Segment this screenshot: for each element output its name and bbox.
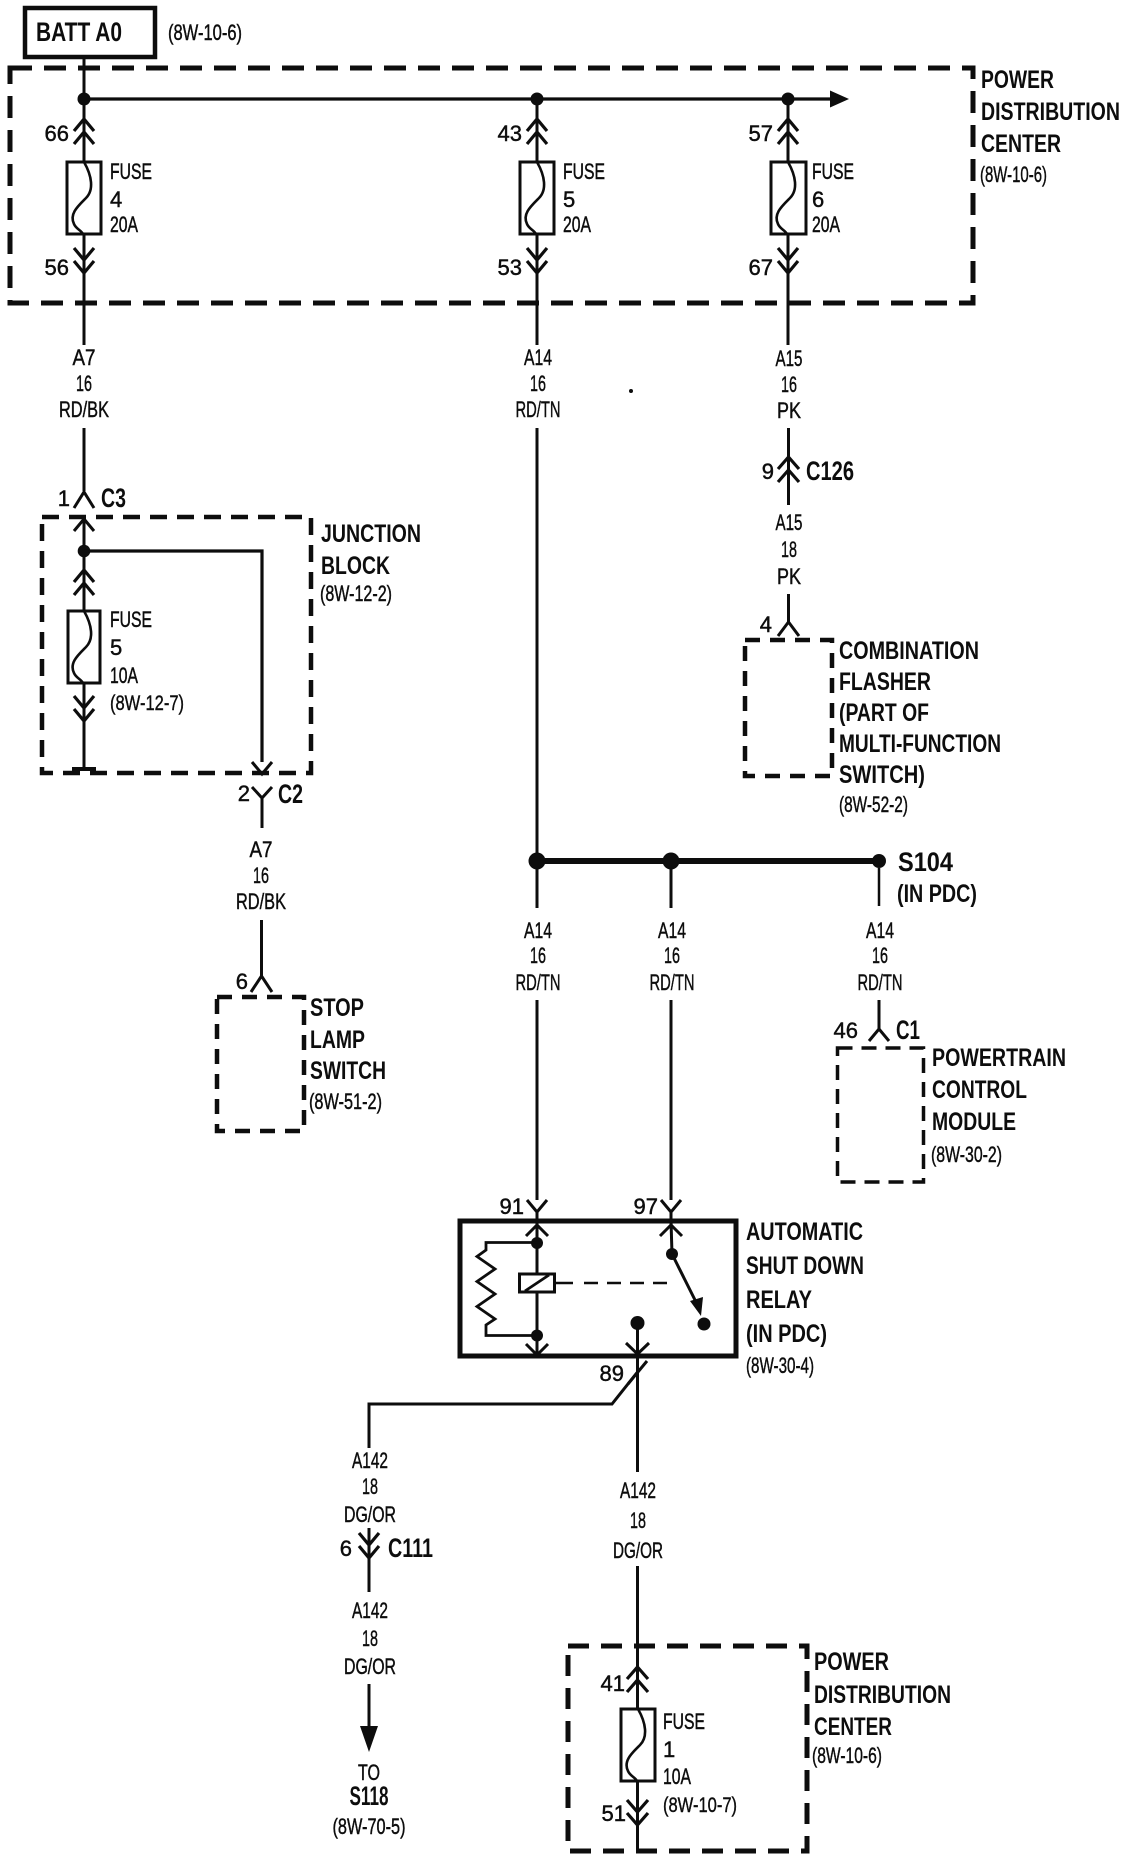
svg-text:(8W-70-5): (8W-70-5) bbox=[333, 1814, 406, 1839]
svg-text:SWITCH): SWITCH) bbox=[839, 761, 925, 789]
label POWERTRAIN CONTROL MODULE (8W-30-2) bbox=[931, 1044, 1066, 1167]
svg-text:STOP: STOP bbox=[310, 994, 364, 1022]
node relay pin 91 bbox=[531, 1237, 543, 1249]
connector C3 lower arrow bbox=[74, 519, 94, 551]
svg-text:FUSE: FUSE bbox=[563, 159, 605, 184]
svg-text:A14: A14 bbox=[524, 345, 552, 370]
connector C2 upper arrow bbox=[252, 762, 272, 774]
label wire A7 16 RD/BK (upper) bbox=[59, 345, 109, 422]
svg-text:A15: A15 bbox=[776, 510, 803, 535]
svg-text:(8W-10-7): (8W-10-7) bbox=[663, 1794, 737, 1817]
svg-text:FLASHER: FLASHER bbox=[839, 668, 931, 696]
svg-text:46: 46 bbox=[834, 1018, 858, 1043]
connector pin 6 fork bbox=[251, 976, 272, 992]
wire jb fuse to terminal bbox=[83, 683, 86, 768]
label POWER DISTRIBUTION CENTER (8W-10-6) lower bbox=[812, 1648, 951, 1768]
arrow to S118 bbox=[360, 1726, 378, 1752]
wire bus to fuse 6 bbox=[787, 99, 790, 162]
wire fuse 1 output bbox=[636, 1781, 639, 1851]
label wire A142 18 DG/OR (left upper) bbox=[344, 1448, 396, 1527]
svg-text:DISTRIBUTION: DISTRIBUTION bbox=[981, 98, 1120, 126]
svg-text:A14: A14 bbox=[658, 918, 686, 943]
svg-text:CONTROL: CONTROL bbox=[932, 1076, 1027, 1104]
wire bus to fuse 4 bbox=[83, 99, 86, 162]
svg-text:SWITCH: SWITCH bbox=[310, 1057, 386, 1085]
svg-text:RD/TN: RD/TN bbox=[858, 970, 903, 995]
svg-text:RD/BK: RD/BK bbox=[236, 889, 286, 914]
node relay coil return bbox=[531, 1330, 543, 1342]
svg-text:RD/TN: RD/TN bbox=[650, 970, 695, 995]
svg-text:A7: A7 bbox=[73, 345, 96, 370]
wire A7 to stop lamp switch bbox=[260, 920, 263, 976]
svg-text:(8W-12-2): (8W-12-2) bbox=[320, 581, 392, 606]
relay automatic shut down enclosure bbox=[460, 1221, 736, 1356]
svg-text:5: 5 bbox=[563, 187, 575, 212]
fuse 4 20A bbox=[67, 162, 101, 234]
label wire A14 16 RD/TN (fuse 5 output) bbox=[516, 345, 561, 422]
node splice S104 right bbox=[872, 854, 886, 868]
svg-text:9: 9 bbox=[762, 459, 774, 484]
splice S104 bus bbox=[537, 858, 879, 864]
label FUSE 4 20A bbox=[110, 159, 152, 237]
svg-text:(8W-52-2): (8W-52-2) bbox=[839, 792, 908, 817]
svg-text:6: 6 bbox=[236, 969, 248, 994]
svg-text:(8W-30-4): (8W-30-4) bbox=[746, 1353, 814, 1378]
svg-text:18: 18 bbox=[362, 1474, 378, 1499]
pin 97 entry chevron inside relay bbox=[660, 1225, 682, 1236]
node junction bus/fuse6 bbox=[782, 93, 795, 106]
label COMBINATION FLASHER (PART OF MULTI-FUNCTION SWITCH) (8W-52-2) bbox=[839, 637, 1001, 817]
wire bus A0 horizontal bbox=[84, 97, 831, 100]
wire bus to fuse 5 bbox=[536, 99, 539, 162]
svg-text:POWER: POWER bbox=[814, 1648, 889, 1676]
label FUSE 1 10A (8W-10-7) bbox=[663, 1709, 737, 1817]
node splice in junction block bbox=[78, 545, 91, 558]
pin 53 chevron bbox=[527, 248, 547, 273]
pin 67 chevron bbox=[778, 248, 798, 273]
svg-text:RD/TN: RD/TN bbox=[516, 397, 561, 422]
power distribution center 2 dashed enclosure bbox=[568, 1646, 807, 1851]
label wire A14 16 RD/TN (to relay pin 91) bbox=[516, 918, 561, 995]
svg-text:18: 18 bbox=[630, 1508, 646, 1533]
fuse 5 10A junction block bbox=[68, 611, 100, 683]
label TO S118 (8W-70-5) bbox=[333, 1760, 406, 1839]
svg-text:18: 18 bbox=[362, 1626, 378, 1651]
junction block dashed enclosure bbox=[42, 517, 311, 773]
svg-text:PK: PK bbox=[777, 398, 801, 423]
svg-text:CENTER: CENTER bbox=[981, 130, 1061, 158]
svg-text:20A: 20A bbox=[110, 212, 138, 237]
pin 66 chevron bbox=[74, 119, 94, 144]
jb fuse output chevron bbox=[74, 696, 94, 721]
label wire A14 16 RD/TN (to relay pin 97) bbox=[650, 918, 695, 995]
wire splice to fuse 5 jb bbox=[83, 551, 86, 611]
svg-text:57: 57 bbox=[749, 121, 773, 146]
svg-text:1: 1 bbox=[58, 486, 70, 511]
pin 57 chevron bbox=[778, 119, 798, 144]
svg-text:LAMP: LAMP bbox=[310, 1026, 365, 1054]
svg-text:16: 16 bbox=[530, 943, 546, 968]
wire A15 to flasher bbox=[787, 594, 790, 622]
wire relay coil feed bbox=[536, 1221, 539, 1274]
svg-text:COMBINATION: COMBINATION bbox=[839, 637, 979, 665]
svg-text:DISTRIBUTION: DISTRIBUTION bbox=[814, 1681, 951, 1709]
node relay common output bbox=[631, 1316, 645, 1330]
svg-text:(PART OF: (PART OF bbox=[839, 699, 929, 727]
connector fork pin 97 bbox=[661, 1200, 681, 1223]
svg-text:56: 56 bbox=[45, 255, 69, 280]
svg-text:51: 51 bbox=[602, 1801, 626, 1826]
label wire A15 16 PK bbox=[776, 346, 803, 423]
svg-text:FUSE: FUSE bbox=[110, 159, 152, 184]
wire branch to C111 bbox=[369, 1372, 638, 1448]
svg-text:BATT A0: BATT A0 bbox=[36, 17, 122, 47]
connector pin 4 fork bbox=[778, 622, 799, 636]
bus arrow bbox=[830, 91, 849, 108]
svg-text:RELAY: RELAY bbox=[746, 1286, 812, 1314]
label JUNCTION BLOCK (8W-12-2) bbox=[320, 520, 421, 606]
svg-text:A142: A142 bbox=[620, 1478, 656, 1503]
svg-text:MULTI-FUNCTION: MULTI-FUNCTION bbox=[839, 730, 1001, 758]
connector C1 fork bbox=[869, 1029, 889, 1041]
node BATT A0 feed box bbox=[25, 8, 155, 57]
svg-text:97: 97 bbox=[634, 1194, 658, 1219]
svg-text:(8W-10-6): (8W-10-6) bbox=[168, 20, 242, 45]
jb fuse feed chevron bbox=[74, 570, 94, 595]
svg-text:DG/OR: DG/OR bbox=[344, 1654, 396, 1679]
svg-text:91: 91 bbox=[500, 1194, 524, 1219]
wire A7 to connector C3 bbox=[83, 428, 86, 491]
node junction bus/fuse4 bbox=[78, 93, 91, 106]
label S104 (IN PDC) bbox=[897, 847, 977, 908]
node splice S104 middle bbox=[663, 853, 680, 870]
svg-text:16: 16 bbox=[781, 372, 797, 397]
svg-text:PK: PK bbox=[777, 564, 801, 589]
svg-text:66: 66 bbox=[45, 121, 69, 146]
resistor relay suppression bbox=[477, 1243, 537, 1336]
svg-text:2: 2 bbox=[238, 781, 250, 806]
label wire A142 18 DG/OR (left lower) bbox=[344, 1598, 396, 1679]
label FUSE 5 10A (8W-12-7) bbox=[110, 607, 184, 715]
connector C2 lower fork bbox=[252, 787, 272, 828]
combination flasher dashed enclosure bbox=[745, 640, 832, 776]
relay coil K1 bbox=[520, 1274, 555, 1292]
svg-text:RD/BK: RD/BK bbox=[59, 397, 109, 422]
svg-text:RD/TN: RD/TN bbox=[516, 970, 561, 995]
wire stub below S104 left bbox=[536, 868, 539, 908]
svg-text:A142: A142 bbox=[352, 1448, 388, 1473]
svg-text:C111: C111 bbox=[388, 1533, 433, 1563]
wire relay pin 97 to contact bbox=[671, 1221, 672, 1254]
svg-text:(IN PDC): (IN PDC) bbox=[746, 1320, 827, 1348]
wire A14 to PCM pin 46 bbox=[878, 1000, 881, 1029]
fuse 5 20A bbox=[520, 162, 554, 234]
fuse 6 20A bbox=[771, 162, 806, 234]
wire through C111 bbox=[368, 1528, 371, 1592]
label FUSE 6 20A bbox=[812, 159, 854, 237]
svg-text:POWERTRAIN: POWERTRAIN bbox=[932, 1044, 1066, 1072]
svg-text:(IN PDC): (IN PDC) bbox=[897, 880, 977, 908]
svg-text:6: 6 bbox=[340, 1536, 352, 1561]
svg-text:16: 16 bbox=[530, 371, 546, 396]
wire A14 down to splice S104 bbox=[536, 428, 539, 858]
power distribution center dashed enclosure bbox=[10, 68, 973, 303]
node splice S104 left bbox=[529, 853, 546, 870]
svg-text:(8W-10-6): (8W-10-6) bbox=[812, 1743, 882, 1768]
node relay contact 97 bbox=[666, 1248, 678, 1260]
svg-text:A7: A7 bbox=[250, 837, 273, 862]
svg-text:(8W-10-6): (8W-10-6) bbox=[980, 162, 1047, 187]
wire armature dashed link bbox=[584, 1282, 668, 1285]
wire armature link stub bbox=[555, 1282, 574, 1285]
fuse 1 10A bbox=[621, 1709, 655, 1781]
svg-text:4: 4 bbox=[760, 612, 772, 637]
svg-text:20A: 20A bbox=[563, 212, 591, 237]
svg-text:S104: S104 bbox=[898, 847, 953, 877]
svg-text:1: 1 bbox=[663, 1737, 675, 1762]
wire to S118 bbox=[368, 1684, 371, 1736]
svg-text:DG/OR: DG/OR bbox=[613, 1538, 663, 1563]
svg-text:JUNCTION: JUNCTION bbox=[321, 520, 421, 548]
svg-text:A14: A14 bbox=[866, 918, 894, 943]
coil return exit chevron bbox=[526, 1344, 548, 1355]
svg-text:(8W-12-7): (8W-12-7) bbox=[110, 692, 184, 715]
label wire A15 18 PK bbox=[776, 510, 803, 589]
svg-text:16: 16 bbox=[253, 863, 269, 888]
svg-text:C3: C3 bbox=[101, 483, 126, 513]
pin 41 chevron bbox=[627, 1667, 648, 1692]
svg-text:C126: C126 bbox=[806, 456, 854, 486]
label wire A7 16 RD/BK (lower) bbox=[236, 837, 286, 914]
svg-text:FUSE: FUSE bbox=[663, 1709, 705, 1734]
connector slash pin 89 bbox=[628, 1361, 647, 1384]
wire BATT A0 to bus bbox=[83, 57, 86, 99]
wire A15 to C126 bbox=[787, 428, 790, 505]
svg-text:FUSE: FUSE bbox=[110, 607, 152, 632]
wire pin 89 down bbox=[636, 1356, 639, 1472]
jb dead-end terminal bar bbox=[72, 767, 96, 771]
label AUTOMATIC SHUT DOWN RELAY (IN PDC) (8W-30-4) bbox=[746, 1218, 864, 1378]
svg-text:A15: A15 bbox=[776, 346, 803, 371]
svg-text:A142: A142 bbox=[352, 1598, 388, 1623]
wire fuse 5 down out of PDC bbox=[536, 234, 539, 345]
svg-text:C1: C1 bbox=[896, 1015, 920, 1045]
wire branch to C2 bbox=[84, 551, 262, 762]
wire A142 into PDC bbox=[636, 1566, 639, 1709]
svg-text:5: 5 bbox=[110, 635, 122, 660]
pin 43 chevron bbox=[527, 119, 547, 144]
stop lamp switch dashed enclosure bbox=[217, 997, 304, 1131]
svg-text:10A: 10A bbox=[110, 663, 138, 688]
label wire A14 16 RD/TN (to PCM) bbox=[858, 918, 903, 995]
node relay contact lower bbox=[698, 1318, 711, 1331]
stray scan dot bbox=[629, 389, 633, 393]
connector C111 chevron bbox=[359, 1533, 379, 1558]
svg-text:(8W-30-2): (8W-30-2) bbox=[931, 1142, 1002, 1167]
svg-text:S118: S118 bbox=[350, 1781, 389, 1811]
svg-text:MODULE: MODULE bbox=[932, 1108, 1016, 1136]
svg-text:41: 41 bbox=[601, 1671, 625, 1696]
svg-text:89: 89 bbox=[600, 1361, 624, 1386]
svg-text:DG/OR: DG/OR bbox=[344, 1502, 396, 1527]
svg-text:20A: 20A bbox=[812, 212, 840, 237]
pin 51 chevron bbox=[627, 1800, 648, 1825]
svg-text:18: 18 bbox=[781, 537, 797, 562]
wire fuse 4 down out of PDC bbox=[83, 234, 86, 345]
connector C3 upper fork bbox=[74, 492, 94, 508]
node junction bus/fuse5 bbox=[531, 93, 544, 106]
svg-text:10A: 10A bbox=[663, 1764, 691, 1789]
svg-text:43: 43 bbox=[498, 121, 522, 146]
svg-text:67: 67 bbox=[749, 255, 773, 280]
pin 89 exit chevron bbox=[626, 1343, 649, 1354]
label wire A142 18 DG/OR (right) bbox=[613, 1478, 663, 1563]
pin 91 entry chevron inside relay bbox=[526, 1225, 548, 1236]
wire stub below S104 middle bbox=[670, 868, 673, 908]
svg-text:SHUT DOWN: SHUT DOWN bbox=[746, 1252, 864, 1280]
svg-text:16: 16 bbox=[872, 943, 888, 968]
svg-text:16: 16 bbox=[76, 371, 92, 396]
svg-text:AUTOMATIC: AUTOMATIC bbox=[746, 1218, 863, 1246]
powertrain control module dashed enclosure bbox=[838, 1048, 924, 1182]
svg-text:4: 4 bbox=[110, 187, 122, 212]
svg-text:BLOCK: BLOCK bbox=[321, 552, 390, 580]
svg-text:53: 53 bbox=[498, 255, 522, 280]
svg-text:6: 6 bbox=[812, 187, 824, 212]
svg-text:FUSE: FUSE bbox=[812, 159, 854, 184]
label STOP LAMP SWITCH (8W-51-2) bbox=[309, 994, 386, 1114]
wire common to pin 89 bbox=[636, 1323, 639, 1356]
label FUSE 5 20A bbox=[563, 159, 605, 237]
label POWER DISTRIBUTION CENTER (8W-10-6) bbox=[980, 66, 1120, 187]
connector fork pin 91 bbox=[527, 1200, 547, 1223]
wire A14 to relay pin 91 bbox=[536, 1000, 539, 1200]
svg-text:CENTER: CENTER bbox=[814, 1713, 892, 1741]
connector C126 chevron bbox=[778, 457, 799, 482]
svg-text:C2: C2 bbox=[278, 779, 303, 809]
wire fuse 6 down out of PDC bbox=[787, 234, 790, 345]
svg-text:(8W-51-2): (8W-51-2) bbox=[309, 1089, 382, 1114]
relay switch armature bbox=[672, 1254, 703, 1316]
svg-text:A14: A14 bbox=[524, 918, 552, 943]
pin 56 chevron bbox=[74, 248, 94, 273]
wire coil to lower node bbox=[536, 1292, 539, 1356]
svg-text:POWER: POWER bbox=[981, 66, 1054, 94]
wire stub below S104 right bbox=[878, 868, 881, 906]
svg-text:16: 16 bbox=[664, 943, 680, 968]
wire A14 to relay pin 97 bbox=[670, 1000, 673, 1200]
